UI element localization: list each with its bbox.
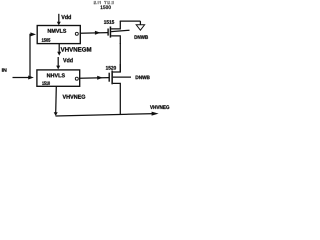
label VHVNEG (right) (150, 105, 169, 109)
transistor 1515 channel bar (110, 27, 112, 38)
wire IN input (13, 77, 31, 79)
Vdd supply arrow (bottom block) (57, 57, 59, 66)
wire series connection 1515 source to 1520 drain (119, 43, 121, 72)
label VHVNEGM (61, 47, 92, 51)
open arrow output port (pointing down) (136, 25, 144, 30)
label VHVNEG (mid) (63, 95, 86, 99)
transistor 1515 source lead (111, 36, 120, 44)
inverting bubble on NHVLS output (75, 77, 78, 80)
label Vdd (bottom) (63, 58, 73, 62)
wire NMVLS output to gate of 1515 (80, 32, 108, 35)
transistor 1520 source lead (113, 83, 121, 115)
label DNWB (bottom) (136, 76, 150, 80)
label 1500 (101, 5, 111, 9)
transistor 1520 bulk lead (DNWB) (113, 76, 131, 78)
label 1515 (104, 20, 114, 24)
VHVNEGM supply arrow (below top block) (58, 44, 60, 53)
title korean text "well switch" (tiny glyph strokes) (94, 1, 114, 4)
VHVNEG arrow from NHVLS down to rail (55, 86, 58, 113)
label 1520 (106, 66, 116, 70)
transistor 1515 drain lead (111, 21, 120, 29)
label DNWB (top) (135, 35, 149, 39)
label Vdd (top) (61, 15, 71, 19)
label 1505 (42, 38, 50, 42)
transistor 1515 bulk lead (DNWB) (111, 30, 129, 31)
transistor 1520 channel bar (111, 71, 113, 85)
label NMVLS (48, 29, 66, 33)
wire drain rail to output port (120, 20, 141, 22)
wire NHVLS output to gate of 1520 (80, 77, 109, 80)
wire branch from IN up to NMVLS input (30, 34, 31, 77)
label NHVLS (47, 73, 65, 77)
label IN (2, 68, 7, 71)
port stub (139, 21, 141, 25)
Vdd supply arrow (top block) (58, 14, 60, 23)
block NHVLS 1510 (level shifter) (37, 70, 80, 86)
transistor 1520 gate bar (109, 73, 110, 82)
inverting bubble on NMVLS output (75, 32, 78, 35)
transistor 1515 gate bar (107, 29, 108, 36)
label 1510 (42, 81, 50, 85)
transistor 1520 drain lead (113, 64, 121, 72)
block NMVLS 1505 (level shifter) (37, 26, 80, 44)
bottom rail wire VHVNEG (56, 114, 156, 116)
